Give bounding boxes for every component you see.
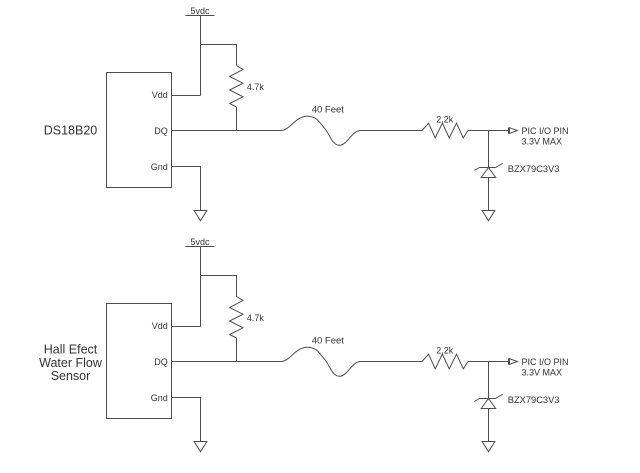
svg-text:DQ: DQ — [154, 126, 168, 136]
svg-text:BZX79C3V3: BZX79C3V3 — [508, 395, 560, 405]
svg-text:Gnd: Gnd — [151, 162, 168, 172]
svg-text:PIC I/O PIN: PIC I/O PIN — [522, 126, 569, 136]
svg-text:2.2k: 2.2k — [436, 114, 454, 124]
svg-text:Water Flow: Water Flow — [39, 356, 103, 370]
svg-text:5vdc: 5vdc — [190, 237, 210, 247]
svg-text:5vdc: 5vdc — [190, 6, 210, 16]
svg-text:BZX79C3V3: BZX79C3V3 — [508, 164, 560, 174]
svg-text:DS18B20: DS18B20 — [44, 124, 98, 138]
svg-text:4.7k: 4.7k — [247, 313, 265, 323]
svg-text:DQ: DQ — [154, 357, 168, 367]
svg-text:Hall Efect: Hall Efect — [44, 343, 98, 357]
svg-text:Vdd: Vdd — [152, 321, 168, 331]
svg-text:40 Feet: 40 Feet — [312, 104, 345, 115]
svg-text:Vdd: Vdd — [152, 90, 168, 100]
svg-text:3.3V MAX: 3.3V MAX — [522, 367, 563, 377]
svg-text:2.2k: 2.2k — [436, 345, 454, 355]
svg-text:PIC I/O PIN: PIC I/O PIN — [522, 357, 569, 367]
svg-text:Gnd: Gnd — [151, 393, 168, 403]
svg-text:40 Feet: 40 Feet — [312, 335, 345, 346]
svg-text:4.7k: 4.7k — [247, 82, 265, 92]
svg-text:3.3V MAX: 3.3V MAX — [522, 136, 563, 146]
svg-text:Sensor: Sensor — [51, 369, 91, 383]
